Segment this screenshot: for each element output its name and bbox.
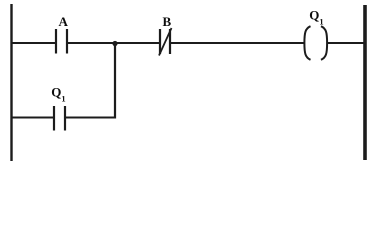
- svg-text:Q1: Q1: [51, 85, 65, 104]
- svg-text:B: B: [163, 14, 172, 29]
- svg-text:A: A: [59, 14, 69, 29]
- svg-text:Q1: Q1: [309, 8, 323, 27]
